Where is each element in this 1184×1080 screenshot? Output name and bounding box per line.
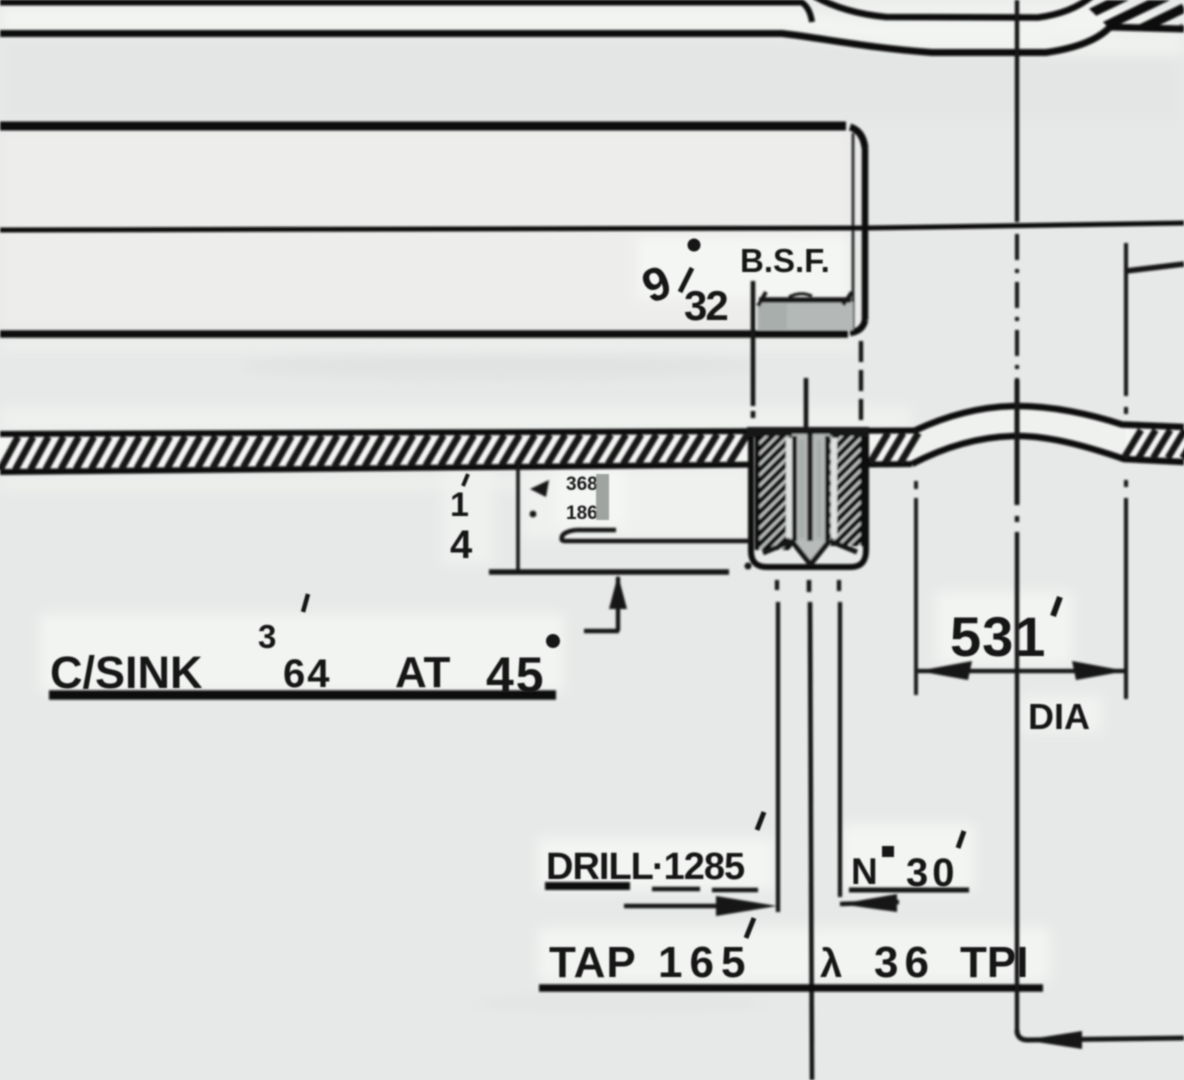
thread hatching left [755, 395, 792, 623]
thread hatching right [830, 398, 864, 612]
svg-text:32: 32 [684, 282, 727, 329]
C/SINK leader arrow [616, 577, 620, 631]
dome base left extension line [914, 481, 918, 695]
hidden hole shading in bar [757, 302, 853, 330]
svg-text:DIA: DIA [1028, 696, 1090, 737]
svg-text:531: 531 [950, 605, 1046, 668]
svg-text:λ: λ [820, 942, 842, 986]
main vertical centreline [1015, 0, 1019, 222]
dome outer (top) curve [915, 406, 1184, 431]
thread zone right wall [830, 436, 864, 545]
adjacent part edge line at right [1126, 264, 1184, 271]
plate section hatching (between boss and dome) [870, 433, 888, 463]
svg-text:TPI: TPI [960, 938, 1028, 987]
countersink depth pointer (hook) [576, 528, 616, 532]
svg-text:30: 30 [906, 851, 959, 895]
hole centre extension line [809, 580, 812, 1080]
bar right edge [862, 148, 869, 320]
svg-text:TAP: TAP [549, 938, 637, 987]
tapping drill hole (grey) [792, 434, 830, 541]
svg-text:N: N [851, 851, 878, 892]
dome interior white band [912, 406, 1184, 464]
svg-text:165: 165 [658, 938, 752, 987]
bar end tangent line [852, 133, 855, 329]
hidden hole right extension line (dashed) [859, 341, 863, 425]
upper part: top plate edge line [0, 3, 812, 23]
thread zone left wall [756, 436, 792, 549]
svg-text:45: 45 [486, 647, 546, 703]
plate section white band [0, 431, 915, 473]
dome inner (bottom) curve [912, 436, 1184, 464]
No.30 dimension line with arrow [840, 902, 899, 904]
drill point cone [791, 541, 830, 564]
svg-text:4: 4 [450, 523, 473, 567]
bar horizontal centreline [0, 228, 866, 230]
boss outline [751, 437, 866, 567]
drill hole wall lines [792, 436, 797, 541]
.531 dimension line with arrows [918, 669, 1126, 673]
bar rounded right end: bottom corner [850, 320, 865, 333]
svg-text:B.S.F.: B.S.F. [740, 242, 830, 279]
svg-text:DRILL: DRILL [546, 846, 654, 888]
bar rounded right end: top corner [850, 127, 865, 148]
svg-text:186: 186 [566, 503, 598, 524]
svg-text:·1285: ·1285 [652, 846, 745, 888]
plate section bottom surface line [0, 465, 748, 472]
1/4 dimension line [516, 466, 520, 570]
centreline bottom corner with arrow [1017, 1030, 1184, 1040]
TAP note underline [539, 984, 1043, 992]
bar bottom edge [0, 330, 848, 338]
dome base right extension line [1124, 243, 1128, 699]
C/SINK note underline [49, 690, 556, 700]
svg-text:1: 1 [450, 486, 469, 524]
plate section hatching (left of boss) [0, 437, 18, 470]
upper part: lower edge line curving into neck fillet [0, 27, 1184, 53]
DRILL note underline [545, 882, 630, 890]
svg-text:64: 64 [283, 652, 332, 696]
hidden hole left extension line [751, 281, 756, 406]
DRILL dimension line with arrow [624, 904, 740, 909]
svg-text:3: 3 [258, 618, 276, 655]
upper right corner section hatching [1085, 0, 1184, 116]
thread outer boundary lines [755, 436, 760, 550]
No.30 underline [849, 888, 969, 893]
svg-text:AT: AT [395, 648, 451, 697]
drill left extension line [777, 580, 778, 912]
dimension line for 9/32 B.S.F. tapping [759, 297, 851, 303]
bar top edge [0, 122, 846, 131]
light slits beside drill walls [786, 438, 792, 538]
svg-text:36: 36 [874, 938, 935, 987]
drill right extension line [839, 580, 840, 897]
hole centreline stub between views [804, 378, 809, 431]
upper part: outer neck fillet curve [814, 0, 1092, 18]
svg-text:368: 368 [566, 474, 598, 495]
plate section top surface line [0, 431, 915, 435]
hole top dark band [747, 427, 869, 437]
plate hatching right of dome [1124, 430, 1141, 458]
svg-text:C/SINK: C/SINK [50, 647, 203, 698]
